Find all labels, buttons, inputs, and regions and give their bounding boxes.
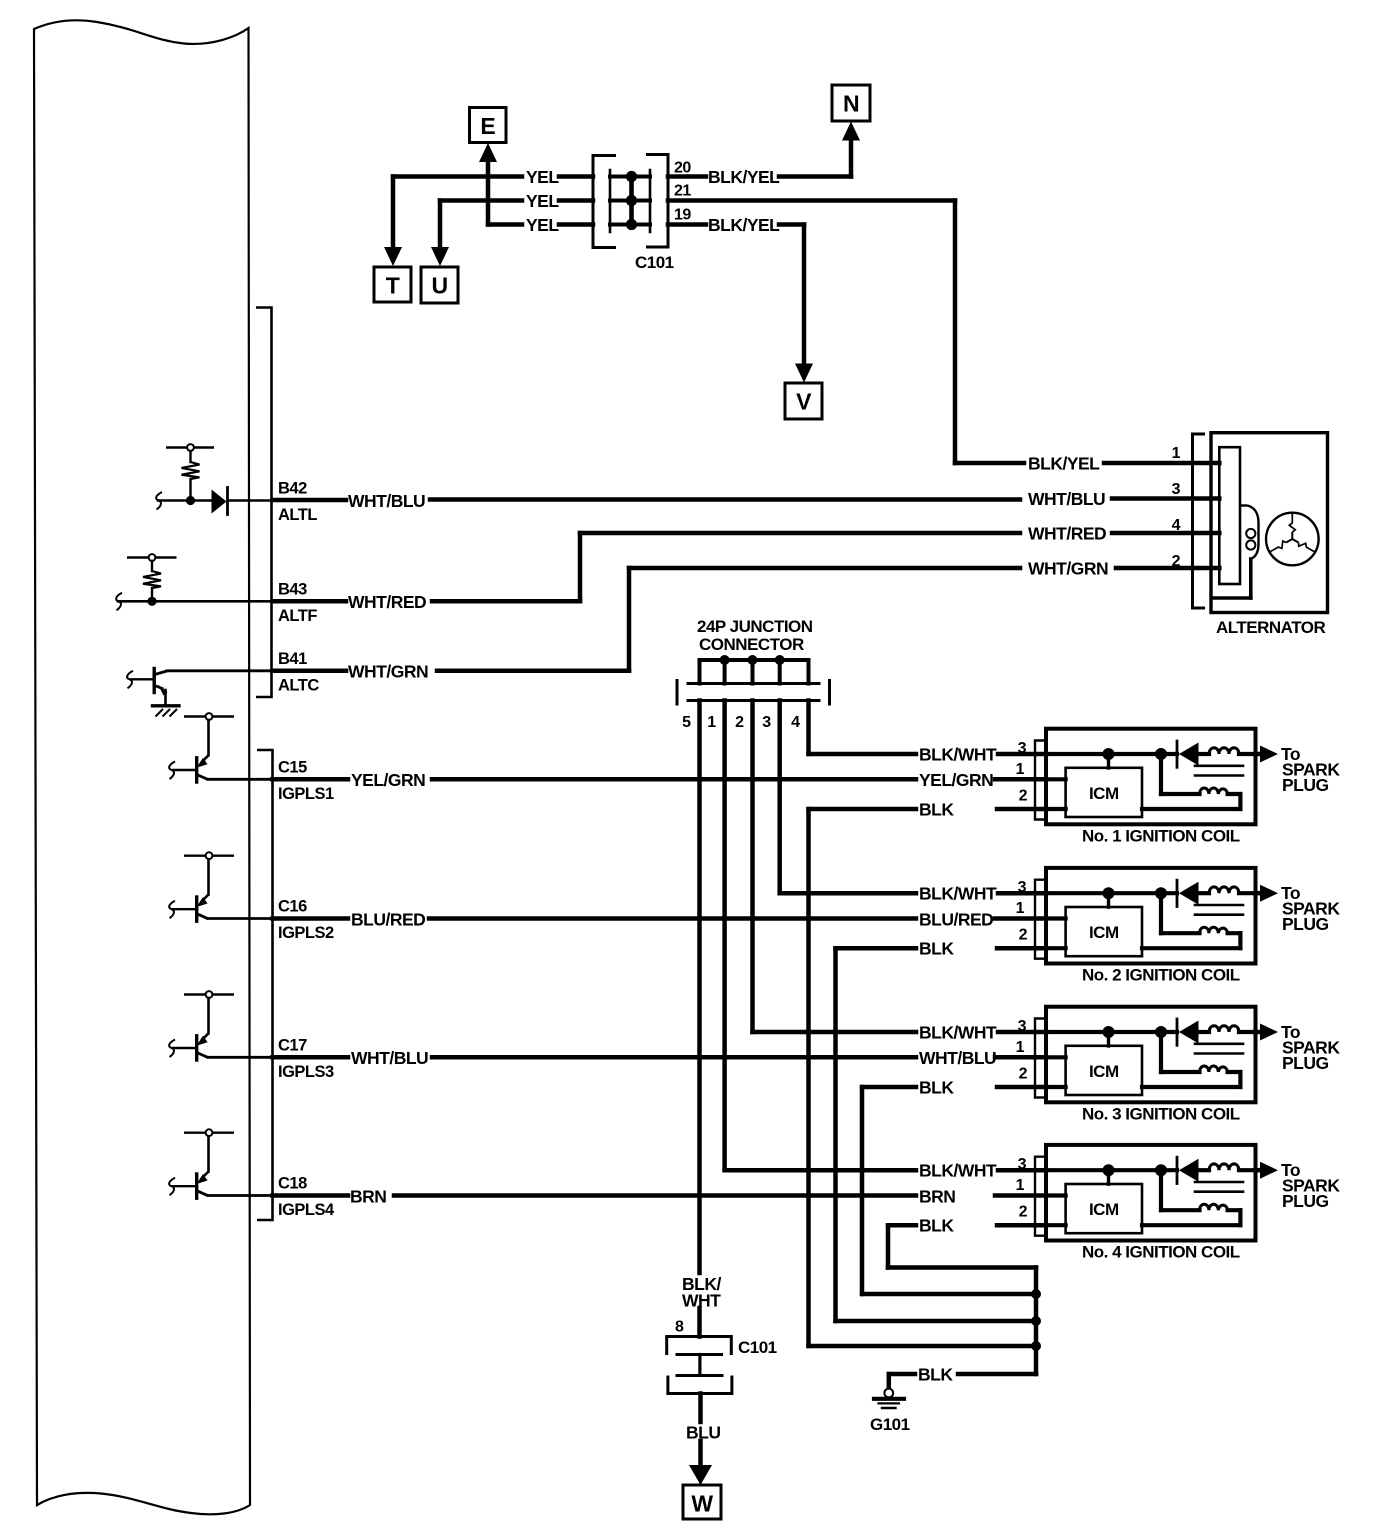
wire WHT/BLU (B42 segment) bbox=[273, 498, 347, 503]
No.3 coil core lines bbox=[1195, 1044, 1243, 1054]
label YEL/GRN (ECM) bbox=[351, 770, 425, 790]
label CONNECTOR bbox=[699, 635, 804, 654]
label PLUG (No.4) bbox=[1282, 1191, 1329, 1211]
wire WHT/BLU (stub to alternator pin 3) bbox=[1112, 496, 1219, 501]
connector C101 (top) right bracket bbox=[646, 155, 668, 248]
No.4 coil pin number 3 bbox=[1018, 1156, 1027, 1173]
terminal box E bbox=[470, 108, 507, 143]
svg-text:5: 5 bbox=[682, 714, 691, 731]
alternator pin number 4 bbox=[1172, 517, 1181, 534]
label C101 (top) bbox=[635, 253, 674, 272]
wire WHT/RED run with jog bbox=[432, 533, 1020, 601]
wire YEL/GRN (C15 segment) bbox=[273, 777, 349, 782]
svg-text:IGPLS2: IGPLS2 bbox=[278, 924, 334, 942]
svg-text:24P JUNCTION: 24P JUNCTION bbox=[697, 617, 813, 636]
svg-text:YEL: YEL bbox=[526, 191, 559, 211]
transistor Q3 (C16 driver) bbox=[172, 852, 272, 921]
24P pin number 3 bbox=[762, 714, 771, 731]
svg-text:BLK: BLK bbox=[918, 1365, 953, 1385]
label SPARK (No.3) bbox=[1282, 1038, 1340, 1058]
No.3 coil junction dot A bbox=[1103, 1026, 1115, 1038]
No.4 coil pin number 1 bbox=[1016, 1177, 1025, 1194]
ICM U1 bbox=[1066, 768, 1142, 817]
svg-text:YEL/GRN: YEL/GRN bbox=[919, 770, 993, 790]
24P junction bus dots bbox=[720, 655, 785, 665]
wire BRN long run bbox=[394, 1193, 916, 1198]
wire into bottom C101 bbox=[697, 1308, 702, 1337]
No.4 coil primary winding bbox=[1209, 1164, 1256, 1170]
svg-text:G101: G101 bbox=[870, 1415, 910, 1434]
svg-text:2: 2 bbox=[1019, 1066, 1028, 1083]
svg-text:PLUG: PLUG bbox=[1282, 1053, 1329, 1073]
svg-text:N: N bbox=[843, 91, 859, 117]
No.4 coil junction dot A bbox=[1103, 1164, 1115, 1176]
svg-text:BLK: BLK bbox=[919, 1078, 954, 1098]
label ALTERNATOR bbox=[1216, 618, 1325, 637]
svg-text:BLK/YEL: BLK/YEL bbox=[1028, 454, 1100, 474]
connector C101 (bottom) lower half bbox=[668, 1376, 732, 1394]
ECM connector bracket B (pins B42/B43/B41) bbox=[256, 308, 272, 698]
label BLK No.2 bbox=[919, 939, 954, 959]
label No. 2 IGNITION COIL bbox=[1082, 966, 1240, 985]
svg-text:BLK: BLK bbox=[919, 939, 954, 959]
label No. 3 IGNITION COIL bbox=[1082, 1105, 1240, 1124]
label WHT/RED (alternator) bbox=[1028, 524, 1106, 544]
24P junction bus bbox=[700, 658, 809, 662]
transistor Q5 (C18 driver) bbox=[172, 1129, 272, 1198]
svg-text:C18: C18 bbox=[278, 1175, 307, 1193]
svg-text:ICM: ICM bbox=[1089, 1062, 1119, 1081]
svg-text:B41: B41 bbox=[278, 650, 307, 668]
open terminal circle R1 bbox=[187, 444, 194, 451]
svg-text:BRN: BRN bbox=[350, 1186, 386, 1206]
wire BRN (C18 segment) bbox=[273, 1193, 349, 1198]
alternator field winding bbox=[1213, 506, 1259, 599]
No.1 coil output to spark plug bbox=[1256, 746, 1279, 763]
wire WHT/BLU long run bbox=[432, 1055, 916, 1060]
svg-text:No. 1 IGNITION COIL: No. 1 IGNITION COIL bbox=[1082, 827, 1240, 846]
ignition coil No.2 outer box bbox=[1046, 868, 1256, 964]
No.2 coil pin3 internal rail bbox=[1046, 891, 1177, 895]
transistor Q2 (C15 driver) bbox=[172, 713, 272, 782]
wire WHT/GRN (stub to alternator pin 2) bbox=[1116, 566, 1219, 571]
No.1 coil pin number 3 bbox=[1018, 740, 1027, 757]
alternator pin number 2 bbox=[1172, 553, 1181, 570]
wire BLK drop No.2 bbox=[833, 948, 838, 1321]
svg-text:BLU: BLU bbox=[686, 1423, 720, 1443]
No.4 coil pin1 stub into ICM bbox=[1046, 1193, 1066, 1197]
No.2 coil primary winding bbox=[1209, 887, 1256, 893]
No.2 coil pin number 2 bbox=[1019, 927, 1028, 944]
arrowhead into U bbox=[431, 247, 449, 266]
wire BLK/YEL pin20 rising to N bbox=[779, 136, 851, 177]
No.1 coil pin number 2 bbox=[1019, 788, 1028, 805]
wire BLK/YEL pin19 drop to V bbox=[779, 225, 804, 367]
pin number 19 bbox=[674, 207, 691, 224]
label PLUG (No.3) bbox=[1282, 1053, 1329, 1073]
wire WHT/BLU stub to coil bbox=[995, 1055, 1046, 1060]
svg-text:WHT/BLU: WHT/BLU bbox=[919, 1048, 996, 1068]
svg-text:ICM: ICM bbox=[1089, 923, 1119, 942]
label To (No.4) bbox=[1281, 1160, 1300, 1180]
svg-text:E: E bbox=[480, 113, 495, 139]
wire BLK run No.3 to bus bbox=[862, 1292, 1036, 1297]
No.2 coil core lines bbox=[1195, 905, 1243, 915]
svg-text:WHT/RED: WHT/RED bbox=[348, 592, 426, 612]
svg-text:ICM: ICM bbox=[1089, 1200, 1119, 1219]
wire BLK stub No.2 bbox=[997, 946, 1046, 951]
label To (No.1) bbox=[1281, 744, 1300, 764]
pin label C17 bbox=[278, 1036, 307, 1054]
svg-text:ALTERNATOR: ALTERNATOR bbox=[1216, 618, 1325, 637]
svg-text:YEL: YEL bbox=[526, 215, 559, 235]
24P pin number 1 bbox=[707, 714, 716, 731]
ignition coil No.1 outer box bbox=[1046, 729, 1256, 825]
svg-text:WHT/RED: WHT/RED bbox=[1028, 524, 1106, 544]
svg-text:B43: B43 bbox=[278, 580, 307, 598]
arrowhead into V bbox=[795, 364, 813, 383]
label BLK (G101) bbox=[918, 1365, 953, 1385]
svg-text:V: V bbox=[796, 389, 812, 415]
wire 24P pin1 drop (to No.4 coil) bbox=[722, 701, 727, 1171]
label WHT (bottom) bbox=[682, 1291, 721, 1311]
wire BLK No.1 coil ground bbox=[809, 807, 917, 812]
wire BLK/YEL to alternator pin 1 bbox=[955, 461, 1024, 466]
No.1 coil junction dot B bbox=[1155, 748, 1167, 760]
wire BLU to W bbox=[698, 1441, 703, 1468]
arrowhead into N bbox=[842, 122, 860, 141]
svg-text:2: 2 bbox=[1019, 927, 1028, 944]
No.2 coil pin1 stub into ICM bbox=[1046, 916, 1066, 920]
bus junction dot 2 bbox=[1031, 1316, 1041, 1326]
wire BLK No.3 coil ground bbox=[862, 1085, 916, 1090]
label pin 8 bbox=[675, 1319, 684, 1336]
No.4 coil pin2 stub into ICM bbox=[1046, 1223, 1066, 1227]
No.3 coil pin3 internal rail bbox=[1046, 1030, 1177, 1034]
label YEL row2 bbox=[526, 191, 559, 211]
svg-text:1: 1 bbox=[1016, 1177, 1025, 1194]
label YEL row1 bbox=[526, 167, 559, 187]
svg-text:ALTF: ALTF bbox=[278, 607, 317, 625]
label BLK/YEL row3 bbox=[708, 215, 780, 235]
No.4 coil diode-to-primary bbox=[1199, 1168, 1210, 1172]
label To (No.3) bbox=[1281, 1022, 1300, 1042]
wire BLK/WHT stub No.3 bbox=[998, 1030, 1046, 1035]
No.1 coil core lines bbox=[1195, 766, 1243, 776]
24P junction stubs bbox=[700, 660, 809, 684]
wire BRN stub to coil bbox=[995, 1193, 1046, 1198]
wire BLK/YEL pin20 to N bbox=[668, 174, 706, 179]
pin label ALTF bbox=[278, 607, 317, 625]
No.3 coil pin2 stub into ICM bbox=[1046, 1085, 1066, 1089]
label C101 (bottom) bbox=[738, 1338, 777, 1357]
svg-text:2: 2 bbox=[1019, 1204, 1028, 1221]
No.4 coil dot-to-ICM stub bbox=[1107, 1170, 1110, 1184]
terminal box W bbox=[683, 1485, 721, 1519]
pin label B42 bbox=[278, 480, 307, 498]
wire BLK No.2 coil ground bbox=[836, 946, 917, 951]
pin label IGPLS4 bbox=[278, 1201, 335, 1219]
svg-text:BLK/WHT: BLK/WHT bbox=[919, 884, 997, 904]
transistor Q1 (B41 driver) bbox=[130, 669, 168, 705]
No.3 coil output to spark plug bbox=[1256, 1024, 1279, 1041]
label WHT/BLU (coil) bbox=[919, 1048, 996, 1068]
wire WHT/GRN run with jog bbox=[437, 568, 1020, 671]
wire YEL pin21 (left segment) bbox=[440, 201, 522, 254]
No.1 coil dot-to-ICM stub bbox=[1107, 754, 1110, 768]
No.2 coil pin number 1 bbox=[1016, 900, 1025, 917]
No.1 coil diode bbox=[1177, 741, 1199, 767]
svg-text:C17: C17 bbox=[278, 1036, 307, 1054]
svg-text:3: 3 bbox=[1172, 481, 1181, 498]
svg-text:U: U bbox=[431, 273, 447, 299]
wire BLK drop No.3 bbox=[860, 1087, 865, 1294]
terminal box V bbox=[785, 383, 822, 419]
bus junction dot 1 bbox=[1031, 1289, 1041, 1299]
No.1 coil primary winding bbox=[1209, 748, 1256, 754]
svg-text:BLK/YEL: BLK/YEL bbox=[708, 167, 780, 187]
No.1 coil pin2 stub into ICM bbox=[1046, 807, 1066, 811]
svg-text:No. 2 IGNITION COIL: No. 2 IGNITION COIL bbox=[1082, 966, 1240, 985]
ground (B41 emitter) bbox=[153, 706, 180, 717]
pin label C15 bbox=[278, 758, 307, 776]
svg-text:B42: B42 bbox=[278, 480, 307, 498]
svg-text:BLU/RED: BLU/RED bbox=[351, 909, 425, 929]
No.3 coil diode-to-primary bbox=[1199, 1030, 1210, 1034]
label BLK/WHT No.2 bbox=[919, 884, 997, 904]
label BLU/RED (ECM) bbox=[351, 909, 425, 929]
No.3 coil pin number 1 bbox=[1016, 1039, 1025, 1056]
svg-text:IGPLS4: IGPLS4 bbox=[278, 1201, 335, 1219]
pull-up rail above R1 bbox=[166, 446, 214, 448]
svg-text:C16: C16 bbox=[278, 898, 307, 916]
BLK ground bus bbox=[1034, 1268, 1039, 1375]
svg-text:ALTC: ALTC bbox=[278, 676, 319, 694]
No.2 coil junction dot B bbox=[1155, 887, 1167, 899]
wire BLK/WHT stub No.1 bbox=[998, 752, 1046, 757]
label WHT/RED (B43) bbox=[348, 592, 426, 612]
svg-text:IGPLS3: IGPLS3 bbox=[278, 1063, 334, 1081]
resistor R1 bbox=[182, 451, 200, 498]
wire BLK No.4 coil ground bbox=[888, 1223, 916, 1228]
label SPARK (No.4) bbox=[1282, 1176, 1340, 1196]
svg-text:YEL/GRN: YEL/GRN bbox=[351, 770, 425, 790]
alternator pin number 3 bbox=[1172, 481, 1181, 498]
pin label B43 bbox=[278, 580, 307, 598]
24P connector body bbox=[677, 681, 830, 705]
wire YEL/GRN stub to coil bbox=[995, 777, 1046, 782]
wire YEL pin21 (stub to connector) bbox=[559, 198, 593, 203]
wire BLK stub No.4 bbox=[997, 1223, 1046, 1228]
label G101 bbox=[870, 1415, 910, 1434]
svg-text:WHT/GRN: WHT/GRN bbox=[1028, 559, 1108, 579]
No.3 coil secondary winding bbox=[1142, 1032, 1240, 1087]
wire WHT/RED (B43 segment) bbox=[273, 599, 347, 604]
arrowhead into E bbox=[479, 143, 497, 162]
No.4 coil output to spark plug bbox=[1256, 1162, 1279, 1179]
svg-text:W: W bbox=[691, 1491, 713, 1517]
svg-text:ICM: ICM bbox=[1089, 784, 1119, 803]
No.2 coil pin number 3 bbox=[1018, 879, 1027, 896]
wire B42 internal bbox=[158, 499, 272, 502]
svg-text:3: 3 bbox=[1018, 1156, 1027, 1173]
wire BLK drop No.4 bbox=[886, 1225, 891, 1267]
ignition coil No.3 outer box bbox=[1046, 1007, 1256, 1103]
junction dot pin19 bbox=[626, 219, 637, 230]
label BRN (coil) bbox=[919, 1186, 955, 1206]
wire BLU below C101 bbox=[698, 1394, 703, 1423]
wire WHT/GRN (B41 segment) bbox=[273, 669, 347, 674]
ICM U4 bbox=[1066, 1184, 1142, 1233]
svg-text:21: 21 bbox=[674, 183, 691, 200]
wire B41 internal bbox=[167, 669, 272, 672]
svg-text:ALTL: ALTL bbox=[278, 506, 317, 524]
svg-text:IGPLS1: IGPLS1 bbox=[278, 785, 334, 803]
wire-end hook Q2 base bbox=[169, 762, 175, 780]
svg-text:WHT/BLU: WHT/BLU bbox=[1028, 489, 1105, 509]
svg-text:C101: C101 bbox=[635, 253, 674, 272]
wire BLK/WHT stub No.4 bbox=[998, 1168, 1046, 1173]
connector C101 (bottom) upper half bbox=[667, 1337, 732, 1376]
svg-text:PLUG: PLUG bbox=[1282, 775, 1329, 795]
wire YEL pin20 (left segment) bbox=[393, 177, 522, 254]
svg-text:1: 1 bbox=[1016, 900, 1025, 917]
wire YEL pin20 (stub to connector) bbox=[559, 174, 593, 179]
No.2 coil junction dot A bbox=[1103, 887, 1115, 899]
wire BLK/YEL pin19 to V bbox=[668, 222, 706, 227]
label To (No.2) bbox=[1281, 883, 1300, 903]
wire BLK/YEL (stub to alternator pin 1) bbox=[1104, 461, 1219, 466]
wire BLK/WHT feed No.4 coil bbox=[725, 1168, 916, 1173]
label BLU bbox=[686, 1423, 720, 1443]
label WHT/GRN (B41) bbox=[348, 662, 428, 682]
wire-end hook Q3 base bbox=[169, 901, 175, 919]
svg-text:1: 1 bbox=[1016, 761, 1025, 778]
svg-text:BLK/WHT: BLK/WHT bbox=[919, 745, 997, 765]
wire WHT/BLU long run bbox=[430, 497, 1020, 502]
junction dot pin21 bbox=[626, 195, 637, 206]
24P pin number 4 bbox=[791, 714, 800, 731]
svg-text:C15: C15 bbox=[278, 758, 307, 776]
label PLUG (No.2) bbox=[1282, 914, 1329, 934]
label BLK No.1 bbox=[919, 800, 954, 820]
wire-end hook B42 bbox=[156, 492, 162, 510]
No.2 coil diode-to-primary bbox=[1199, 891, 1210, 895]
svg-text:8: 8 bbox=[675, 1319, 684, 1336]
No.1 coil pin3 internal rail bbox=[1046, 752, 1177, 756]
alternator connector bracket bbox=[1193, 434, 1206, 608]
open terminal circle R2 bbox=[149, 554, 156, 561]
svg-text:BRN: BRN bbox=[919, 1186, 955, 1206]
wire YEL/GRN long run bbox=[432, 777, 916, 782]
pin label IGPLS3 bbox=[278, 1063, 334, 1081]
wire BLK run No.4 to bus bbox=[888, 1265, 1036, 1270]
wire BLU/RED (C16 segment) bbox=[273, 916, 349, 921]
No.2 coil connector bracket bbox=[1035, 880, 1044, 959]
label BLU/RED (coil) bbox=[919, 909, 993, 929]
ECM connector bracket C (pins C15-C18) bbox=[257, 750, 273, 1220]
svg-text:BLU/RED: BLU/RED bbox=[919, 909, 993, 929]
label BLK/WHT No.1 bbox=[919, 745, 997, 765]
pull-up rail above R2 bbox=[127, 556, 177, 558]
label BLK/YEL row1 bbox=[708, 167, 780, 187]
svg-text:2: 2 bbox=[735, 714, 744, 731]
ECM module (torn strip outline) bbox=[34, 20, 250, 1514]
alternator regulator block bbox=[1219, 447, 1240, 584]
svg-text:4: 4 bbox=[791, 714, 800, 731]
No.1 coil pin number 1 bbox=[1016, 761, 1025, 778]
svg-text:3: 3 bbox=[1018, 1018, 1027, 1035]
No.4 coil pin3 internal rail bbox=[1046, 1168, 1177, 1172]
terminal box N bbox=[832, 85, 870, 121]
junction dot B42 bbox=[186, 496, 195, 505]
svg-text:PLUG: PLUG bbox=[1282, 914, 1329, 934]
No.3 coil dot-to-ICM stub bbox=[1107, 1032, 1110, 1046]
arrowhead into T bbox=[384, 247, 402, 266]
connector C101 (top) junction bus bbox=[629, 177, 634, 225]
No.4 coil diode bbox=[1177, 1157, 1199, 1183]
wire 24P pin5 drop (to C101 bottom) bbox=[697, 701, 702, 1274]
No.3 coil pin number 3 bbox=[1018, 1018, 1027, 1035]
ICM U2 bbox=[1066, 907, 1142, 956]
No.1 coil junction dot A bbox=[1103, 748, 1115, 760]
label SPARK (No.2) bbox=[1282, 899, 1340, 919]
pin label IGPLS2 bbox=[278, 924, 334, 942]
ICM U3 bbox=[1066, 1046, 1142, 1095]
pin label IGPLS1 bbox=[278, 785, 334, 803]
No.4 coil pin number 2 bbox=[1019, 1204, 1028, 1221]
transistor Q4 (C17 driver) bbox=[172, 991, 272, 1060]
No.3 coil primary winding bbox=[1209, 1026, 1256, 1032]
wire 24P pin4 drop (to No.1 coil) bbox=[806, 701, 811, 755]
svg-text:3: 3 bbox=[1018, 879, 1027, 896]
bus junction dot 3 bbox=[1031, 1341, 1041, 1351]
pin number 21 bbox=[674, 183, 691, 200]
label BLK No.3 bbox=[919, 1078, 954, 1098]
svg-text:No. 4 IGNITION COIL: No. 4 IGNITION COIL bbox=[1082, 1243, 1240, 1262]
label No. 4 IGNITION COIL bbox=[1082, 1243, 1240, 1262]
label WHT/GRN (alternator) bbox=[1028, 559, 1108, 579]
wire YEL pin19 (left segment) bbox=[488, 158, 522, 225]
svg-text:BLK/WHT: BLK/WHT bbox=[919, 1023, 997, 1043]
wire BLK/YEL pin21 long run bbox=[668, 201, 955, 464]
svg-text:WHT/GRN: WHT/GRN bbox=[348, 662, 428, 682]
wire BLK/WHT stub No.2 bbox=[998, 891, 1046, 896]
ignition coil No.4 outer box bbox=[1046, 1145, 1256, 1241]
wire WHT/RED (stub to alternator pin 4) bbox=[1112, 531, 1219, 536]
svg-text:PLUG: PLUG bbox=[1282, 1191, 1329, 1211]
24P pin number 2 bbox=[735, 714, 744, 731]
svg-text:1: 1 bbox=[1172, 445, 1181, 462]
svg-text:4: 4 bbox=[1172, 517, 1181, 534]
junction dot B43 bbox=[147, 597, 156, 606]
label No. 1 IGNITION COIL bbox=[1082, 827, 1240, 846]
wire BLU/RED stub to coil bbox=[995, 916, 1046, 921]
svg-text:20: 20 bbox=[674, 160, 691, 177]
wire BLU/RED long run bbox=[429, 916, 916, 921]
label BLK/YEL (alternator) bbox=[1028, 454, 1100, 474]
No.3 coil diode bbox=[1177, 1019, 1199, 1045]
svg-text:19: 19 bbox=[674, 207, 691, 224]
No.4 coil junction dot B bbox=[1155, 1164, 1167, 1176]
svg-text:3: 3 bbox=[762, 714, 771, 731]
alternator stator (3-phase Y) bbox=[1266, 513, 1319, 566]
No.2 coil pin2 stub into ICM bbox=[1046, 946, 1066, 950]
No.4 coil core lines bbox=[1195, 1182, 1243, 1192]
label BLK/WHT No.4 bbox=[919, 1161, 997, 1181]
wire BLK run No.2 to bus bbox=[836, 1319, 1037, 1324]
pin number 20 bbox=[674, 160, 691, 177]
